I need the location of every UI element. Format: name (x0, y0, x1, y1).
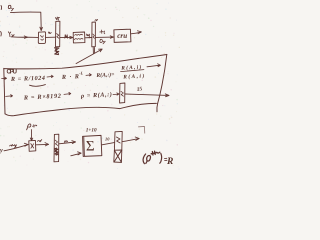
svg-text:R = R/1024: R = R/1024 (10, 75, 45, 83)
second input stub into Sigma (71, 152, 81, 156)
row2 output wire with label 15 crossing border (125, 94, 169, 97)
wire B1 to T2, label mu (85, 37, 91, 39)
output arrow from T4 (122, 139, 138, 142)
CPU region border (big hand-drawn box) (4, 55, 167, 69)
wire down into K (30, 130, 33, 141)
row1 arrow (47, 75, 53, 77)
svg-text:Σ: Σ (86, 139, 95, 155)
arrowhead into T5 (113, 93, 119, 95)
input label psi-x (1, 32, 15, 37)
register T2 (tall thin box) (92, 19, 98, 46)
svg-text:CPU: CPU (7, 70, 18, 76)
wire T2 to CPU box with fraction label +e/thy (96, 36, 114, 38)
row2 arrow (6, 95, 13, 97)
wire M1 to T1, label N (46, 36, 56, 38)
svg-text:R: R (166, 157, 173, 167)
wire from phi-y turning down into multiplier M1 (11, 12, 42, 29)
label eta-x on wire (10, 144, 17, 147)
wire T1 to block B1, label M (60, 36, 73, 38)
small bracket mark (138, 127, 144, 134)
hatched tail below T1 (55, 48, 59, 55)
row1 arrow out to border (147, 64, 160, 67)
register T3 (tall thin box) (54, 134, 59, 162)
row1 formula R=R^-1/2 (61, 70, 84, 81)
svg-text:cru: cru (117, 32, 127, 40)
formula (rho^e)=R (143, 151, 173, 167)
fraction R(A,i)/R(A,i) (120, 63, 145, 80)
svg-text:R(A,:)=: R(A,:)= (95, 71, 114, 79)
register T4 (tilted tall box) (114, 131, 122, 150)
wire y to K (4, 145, 28, 151)
row1 arrow (86, 74, 91, 76)
svg-text:R·R: R·R (61, 73, 79, 81)
svg-text:-L: -L (79, 70, 84, 75)
wire Sigma to T4, label 10 (102, 143, 114, 145)
wire psi-x into M1 with arrowhead (11, 36, 38, 39)
block B1 with two lines of text (73, 32, 85, 43)
hatched block below T4 (114, 150, 122, 162)
wire K to T3 with label (36, 143, 48, 145)
register T1 (tall thin box) with label dT (55, 17, 60, 47)
CPU box (114, 29, 131, 42)
wire T3 to Sigma, label n (59, 142, 75, 144)
row1 arrow entering (2, 77, 7, 79)
swoosh underline (30, 85, 46, 87)
CPU output arrow (131, 32, 141, 34)
summation block Sigma (83, 135, 102, 156)
svg-text:1+10: 1+10 (86, 127, 97, 133)
multiplier block M1 (38, 32, 45, 44)
row2 arrow (64, 92, 71, 94)
gain block K (29, 140, 36, 151)
tail below T2 (93, 47, 94, 53)
annotation arrow up to T2 tail (76, 49, 102, 64)
svg-text:y: y (0, 147, 3, 154)
input label phi-y (1, 5, 14, 11)
label rho with superscript (27, 124, 37, 130)
register T5 (thin box crossing row2 wire) (120, 83, 125, 103)
